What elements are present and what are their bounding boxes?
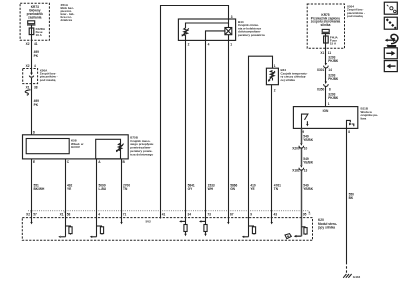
svg-text:X181: X181 — [292, 169, 300, 173]
thermistor in B44 — [182, 28, 189, 40]
svg-text:41: 41 — [162, 213, 166, 217]
svg-text:73: 73 — [207, 213, 211, 217]
wire label 1533 — [208, 183, 215, 191]
B44 internal wiring — [186, 19, 229, 28]
wire 492 YE — [58, 159, 65, 238]
thermistor in B34 — [268, 71, 275, 82]
wire top horizontal to B44 pin 3 — [161, 6, 229, 219]
svg-text:silnika: silnika — [321, 23, 331, 27]
svg-text:95: 95 — [303, 213, 307, 217]
svg-text:PK/BK: PK/BK — [328, 59, 339, 63]
sensor B44 box — [178, 19, 235, 40]
wire 5099 L-BU — [90, 159, 97, 238]
svg-text:2: 2 — [188, 43, 190, 47]
sensor B34 box — [266, 68, 278, 85]
pin D — [33, 131, 36, 135]
wire label 549 (3) — [303, 183, 313, 191]
svg-text:IGN: IGN — [323, 109, 329, 113]
wire continues to B75B — [31, 84, 33, 135]
svg-text:3: 3 — [231, 15, 233, 19]
svg-text:1: 1 — [230, 43, 232, 47]
svg-text:zasilania: zasilania — [28, 15, 42, 19]
wire 5866 GN from pin 1 — [227, 40, 229, 224]
label K58 — [71, 139, 84, 149]
svg-text:liwa: liwa — [361, 117, 367, 121]
svg-text:8: 8 — [329, 88, 331, 92]
svg-text:34: 34 — [188, 213, 192, 217]
wire 499 PK from fuse down to X50A — [31, 35, 33, 73]
label B34 — [281, 68, 308, 82]
svg-text:YE/BK: YE/BK — [303, 187, 313, 191]
label KR73 text — [27, 5, 44, 19]
run output symbol — [347, 120, 354, 128]
connector label X181 13 — [292, 169, 307, 173]
svg-text:PK: PK — [34, 54, 39, 58]
wire label 3293 — [328, 56, 339, 64]
wire 550 BK — [346, 128, 348, 273]
thermistor in B75B — [116, 143, 124, 152]
label K20 — [317, 218, 337, 229]
pin X2 4 — [26, 64, 36, 68]
connector label X350 8 — [317, 88, 331, 92]
wire label 3293 (3) — [328, 92, 339, 100]
svg-text:GCOV: GCOV — [71, 145, 80, 149]
label B11B — [361, 106, 378, 120]
relay contact symbol KR73 — [27, 21, 35, 25]
wire label 492 — [67, 183, 73, 191]
svg-text:X2: X2 — [26, 64, 30, 68]
svg-text:9: 9 — [250, 213, 252, 217]
pin 8 — [348, 130, 350, 134]
resistor in ECM for 549 — [302, 227, 308, 235]
svg-text:G442: G442 — [353, 275, 361, 279]
svg-text:BK: BK — [349, 196, 354, 200]
svg-text:peratury powietrza: peratury powietrza — [238, 33, 265, 37]
fuse block box X504 (dashed) — [307, 4, 344, 48]
svg-text:11: 11 — [328, 51, 332, 55]
label B75B — [129, 135, 153, 156]
svg-text:pod maską: pod maską — [40, 78, 56, 82]
resistor in ECM for 5099 — [97, 226, 104, 235]
pin X2 41 — [26, 42, 38, 46]
svg-text:4: 4 — [208, 43, 210, 47]
module K20 dashed box — [22, 218, 312, 241]
connector dotted line — [28, 210, 309, 212]
wire label 499 PK — [34, 50, 40, 58]
connector X350 — [324, 82, 329, 107]
sensor B75B outer box — [23, 135, 129, 159]
svg-text:GN: GN — [230, 187, 235, 191]
svg-text:1: 1 — [274, 64, 276, 68]
module K58 inner box — [26, 139, 69, 154]
label KR75 text — [311, 13, 341, 27]
wire 1533 WH from pin 4 — [199, 40, 207, 236]
svg-text:X1: X1 — [26, 86, 30, 90]
svg-text:TN: TN — [123, 187, 128, 191]
wire label 2700 — [123, 183, 130, 191]
svg-text:57: 57 — [33, 213, 37, 217]
pin 1 of B11B — [328, 102, 330, 106]
resistor in ECM for 410 — [249, 226, 256, 235]
value label F32DA — [36, 27, 46, 37]
value label F4UA — [330, 35, 339, 45]
svg-text:43: 43 — [274, 213, 278, 217]
wire label 5866 — [230, 183, 237, 191]
icon splice legend 2 — [384, 17, 397, 29]
pin X1 11 — [320, 51, 331, 55]
connector X50A (dashed box) — [23, 69, 38, 84]
ECM pin labels — [26, 212, 311, 217]
label IGN — [323, 109, 329, 113]
svg-text:10: 10 — [304, 147, 308, 151]
icon twisted arrow — [385, 34, 398, 47]
wire 410 YE with branch to B34 — [242, 56, 273, 238]
svg-text:4: 4 — [98, 213, 100, 217]
label X504 — [347, 4, 365, 18]
svg-text:PK/BK: PK/BK — [328, 96, 339, 100]
harness squiggle — [25, 90, 30, 95]
pin 1 of B34 — [274, 64, 276, 68]
svg-text:X2: X2 — [26, 42, 30, 46]
pin 4 internal link — [206, 31, 225, 41]
fuse block box KR73 (dashed) — [20, 3, 49, 40]
wire label 549 (1) — [303, 135, 313, 143]
fuse F32DA — [29, 25, 34, 35]
pin X1 38 — [26, 86, 38, 90]
svg-text:71: 71 — [123, 213, 127, 217]
wire 2700 TN — [120, 159, 122, 225]
ground G442 — [343, 274, 351, 278]
svg-text:4: 4 — [34, 64, 36, 68]
wire 4761 TN — [271, 85, 273, 225]
resistor in ECM for 492 — [66, 226, 73, 235]
wire label 551 — [34, 183, 45, 191]
svg-text:67: 67 — [230, 213, 234, 217]
svg-text:dzielcza: dzielcza — [61, 18, 73, 22]
label X50A — [40, 68, 58, 82]
wire 549 YE/BK — [294, 128, 302, 237]
pins E C A B — [33, 160, 126, 164]
svg-text:58: 58 — [67, 213, 71, 217]
connector symbol X50A — [29, 73, 33, 84]
svg-text:trza dolotowego: trza dolotowego — [130, 152, 153, 156]
svg-text:13: 13 — [304, 169, 308, 173]
svg-text:YE: YE — [67, 187, 71, 191]
svg-text:1: 1 — [328, 102, 330, 106]
wire label 4761 — [274, 183, 281, 191]
package symbol in ECM — [285, 234, 291, 239]
box B11B — [293, 107, 357, 129]
svg-text:X301: X301 — [317, 68, 325, 72]
pin 9 — [302, 130, 304, 134]
svg-text:L-BU: L-BU — [99, 187, 107, 191]
svg-text:2: 2 — [274, 89, 276, 93]
svg-text:YE/BK: YE/BK — [303, 138, 313, 142]
svg-text:YE/BK: YE/BK — [303, 161, 313, 165]
svg-text:41: 41 — [34, 42, 38, 46]
wire label 5099 — [99, 183, 107, 191]
svg-text:15 A: 15 A — [330, 41, 337, 45]
icon arrow left — [384, 61, 397, 72]
connector X200 — [299, 143, 304, 148]
IAT sub-box — [96, 139, 121, 159]
svg-text:BK/WH: BK/WH — [34, 187, 45, 191]
wire label 549 (2) — [303, 157, 313, 165]
svg-text:YE: YE — [250, 187, 254, 191]
svg-text:14: 14 — [328, 68, 332, 72]
svg-text:pod maską: pod maską — [347, 14, 363, 18]
connector X301 — [324, 63, 329, 82]
pins 2 4 1 — [188, 43, 233, 47]
label G442 — [353, 275, 361, 279]
svg-text:jący silnika: jący silnika — [317, 225, 335, 229]
svg-text:TN: TN — [274, 187, 279, 191]
svg-text:38: 38 — [34, 86, 38, 90]
wire label 410 — [250, 183, 256, 191]
svg-text:WH: WH — [208, 187, 214, 191]
svg-text:PK: PK — [34, 103, 39, 107]
icon arrow right — [384, 48, 397, 59]
svg-text:8: 8 — [348, 130, 350, 134]
svg-text:X350: X350 — [317, 88, 325, 92]
svg-text:PK/BK: PK/BK — [328, 77, 339, 81]
svg-text:5V2: 5V2 — [146, 220, 152, 224]
pressure sensor crossed box in B44 — [225, 23, 232, 40]
svg-text:E: E — [33, 160, 35, 164]
svg-text:X1: X1 — [320, 51, 324, 55]
connector X181 — [299, 165, 304, 170]
node 5V2 text — [146, 220, 152, 224]
svg-text:10 A: 10 A — [36, 33, 43, 37]
pin 2 of B34 — [274, 89, 276, 93]
wire label 550 — [349, 193, 355, 201]
fuse F4UA — [324, 34, 329, 43]
wire label 5841 — [188, 183, 195, 191]
pin 3 — [231, 15, 233, 19]
svg-text:X200: X200 — [292, 147, 300, 151]
label B44 — [238, 20, 265, 37]
relay contact symbol KR75 — [322, 29, 330, 33]
wire 5841 GY from pin 2 — [179, 40, 187, 236]
connector label X301 14 — [317, 68, 332, 72]
connector label X200 10 — [292, 147, 307, 151]
icon splice legend 1 — [384, 2, 397, 14]
svg-text:9: 9 — [302, 130, 304, 134]
svg-text:cej silnika: cej silnika — [281, 78, 296, 82]
wire label 499 PK (second) — [34, 99, 40, 107]
ignition switch symbol — [302, 114, 309, 128]
wire 551 BK/WH — [30, 159, 32, 225]
label X51A — [61, 3, 75, 22]
wire label 3293 (2) — [328, 74, 339, 82]
wire 3293 PK/BK down — [325, 43, 327, 63]
